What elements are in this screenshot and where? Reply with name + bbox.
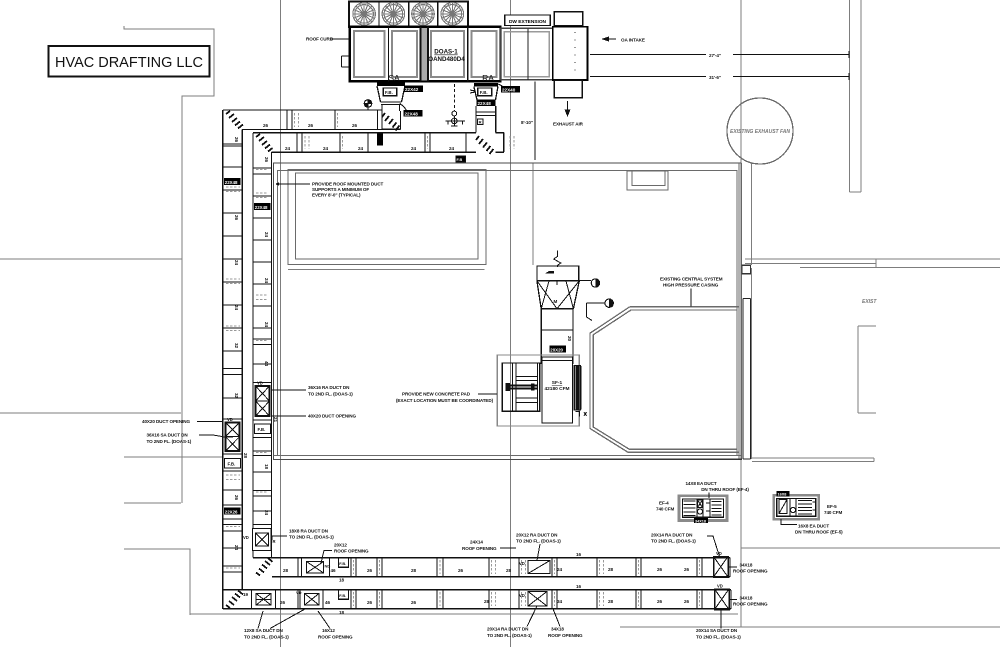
svg-text:DN THRU ROOF (EF-5): DN THRU ROOF (EF-5) bbox=[795, 530, 843, 535]
svg-text:SUPPORTS A MINIMUM OF: SUPPORTS A MINIMUM OF bbox=[312, 187, 369, 192]
svg-text:40X20 DUCT OPENING: 40X20 DUCT OPENING bbox=[142, 419, 191, 424]
svg-text:EF-5: EF-5 bbox=[827, 504, 837, 509]
svg-text:26: 26 bbox=[458, 568, 464, 573]
svg-text:F.B.: F.B. bbox=[385, 90, 393, 95]
svg-text:26: 26 bbox=[684, 567, 690, 572]
svg-text:34: 34 bbox=[557, 599, 563, 604]
svg-text:EXIST: EXIST bbox=[862, 299, 877, 305]
svg-text:16: 16 bbox=[576, 584, 582, 589]
svg-text:26: 26 bbox=[657, 567, 663, 572]
svg-text:F.B: F.B bbox=[457, 158, 463, 162]
svg-text:26: 26 bbox=[684, 599, 690, 604]
svg-text:ROOF OPENING: ROOF OPENING bbox=[334, 549, 369, 554]
svg-text:22X26: 22X26 bbox=[225, 509, 238, 514]
svg-text:40X20 DUCT OPENING: 40X20 DUCT OPENING bbox=[308, 414, 357, 419]
svg-text:EXHAUST AIR: EXHAUST AIR bbox=[553, 122, 584, 127]
svg-text:36X16 RA DUCT DN: 36X16 RA DUCT DN bbox=[308, 385, 350, 390]
svg-text:F.B.: F.B. bbox=[480, 90, 488, 95]
svg-text:ND: ND bbox=[325, 564, 331, 569]
svg-text:ROOF OPENING: ROOF OPENING bbox=[733, 569, 768, 574]
svg-text:26: 26 bbox=[234, 137, 239, 143]
svg-text:DN THRU ROOF (EF-4): DN THRU ROOF (EF-4) bbox=[701, 487, 749, 492]
svg-text:OA INTAKE: OA INTAKE bbox=[621, 37, 645, 42]
svg-text:24X14: 24X14 bbox=[470, 540, 483, 545]
svg-text:32: 32 bbox=[234, 343, 239, 349]
svg-text:VD: VD bbox=[717, 584, 723, 589]
svg-text:26: 26 bbox=[308, 123, 314, 128]
svg-text:VD: VD bbox=[257, 381, 263, 386]
svg-text:R: R bbox=[273, 539, 276, 544]
svg-text:24: 24 bbox=[264, 322, 269, 328]
svg-text:46: 46 bbox=[325, 600, 331, 605]
svg-text:26: 26 bbox=[352, 123, 358, 128]
svg-text:16X12: 16X12 bbox=[322, 628, 335, 633]
svg-text:740 CFM: 740 CFM bbox=[656, 507, 674, 512]
svg-text:F.B.: F.B. bbox=[339, 593, 346, 598]
svg-text:16X8 EA DUCT: 16X8 EA DUCT bbox=[798, 524, 829, 529]
svg-text:34X18: 34X18 bbox=[740, 596, 753, 601]
svg-text:SA: SA bbox=[388, 73, 400, 83]
svg-text:EF-4: EF-4 bbox=[659, 501, 669, 506]
svg-text:TO 2ND FL. (DOAS-1): TO 2ND FL. (DOAS-1) bbox=[147, 439, 192, 444]
svg-text:28: 28 bbox=[283, 568, 289, 573]
svg-text:F.B.: F.B. bbox=[258, 427, 266, 432]
svg-text:20X14 RA DUCT DN: 20X14 RA DUCT DN bbox=[487, 627, 529, 632]
svg-text:TO 2ND FL. (DOAS-1): TO 2ND FL. (DOAS-1) bbox=[487, 633, 532, 638]
svg-text:DOAS-1: DOAS-1 bbox=[434, 49, 458, 56]
svg-text:26: 26 bbox=[263, 123, 269, 128]
svg-text:DW EXTENSION: DW EXTENSION bbox=[509, 19, 547, 25]
svg-text:44: 44 bbox=[264, 361, 269, 367]
svg-text:27'-4": 27'-4" bbox=[709, 53, 721, 58]
svg-text:42180 CFM: 42180 CFM bbox=[544, 386, 569, 392]
svg-text:VD: VD bbox=[519, 561, 525, 566]
svg-text:24: 24 bbox=[234, 305, 239, 311]
svg-text:TO 2ND FL. (DOAS-1): TO 2ND FL. (DOAS-1) bbox=[651, 539, 696, 544]
svg-text:20X14 RA DUCT DN: 20X14 RA DUCT DN bbox=[651, 533, 693, 538]
svg-text:VD: VD bbox=[296, 590, 302, 595]
svg-text:36X16 SA DUCT DN: 36X16 SA DUCT DN bbox=[147, 433, 189, 438]
svg-text:24: 24 bbox=[358, 146, 364, 151]
svg-text:SF-1: SF-1 bbox=[552, 380, 563, 386]
svg-text:26: 26 bbox=[264, 157, 269, 163]
svg-text:28: 28 bbox=[484, 599, 490, 604]
svg-text:28: 28 bbox=[608, 599, 614, 604]
svg-text:VD: VD bbox=[243, 535, 249, 540]
svg-text:R: R bbox=[479, 120, 482, 125]
svg-text:16X8: 16X8 bbox=[778, 493, 787, 497]
svg-text:26: 26 bbox=[367, 568, 373, 573]
svg-text:24: 24 bbox=[234, 260, 239, 266]
svg-text:16: 16 bbox=[576, 552, 582, 557]
svg-text:ROOF OPENING: ROOF OPENING bbox=[462, 546, 497, 551]
svg-text:OAND480D4: OAND480D4 bbox=[428, 56, 465, 63]
svg-text:20X12 RA DUCT DN: 20X12 RA DUCT DN bbox=[516, 533, 558, 538]
svg-text:HIGH PRESSURE CASING: HIGH PRESSURE CASING bbox=[663, 283, 719, 288]
svg-text:22X48: 22X48 bbox=[225, 180, 238, 185]
svg-text:24: 24 bbox=[557, 567, 563, 572]
svg-text:28: 28 bbox=[608, 567, 614, 572]
svg-text:46: 46 bbox=[331, 568, 337, 573]
svg-text:TO 2ND FL. (DOAS-1): TO 2ND FL. (DOAS-1) bbox=[244, 634, 289, 639]
svg-text:26: 26 bbox=[280, 600, 286, 605]
svg-text:EXISTING EXHAUST FAN: EXISTING EXHAUST FAN bbox=[730, 129, 790, 135]
svg-text:TO 2ND FL. (DOAS-1): TO 2ND FL. (DOAS-1) bbox=[516, 539, 561, 544]
svg-text:24: 24 bbox=[234, 545, 239, 551]
svg-text:22X42: 22X42 bbox=[405, 87, 419, 92]
svg-text:24: 24 bbox=[264, 232, 269, 238]
svg-text:26: 26 bbox=[367, 600, 373, 605]
svg-text:24: 24 bbox=[264, 510, 269, 516]
svg-text:22X48: 22X48 bbox=[255, 205, 268, 210]
svg-text:21: 21 bbox=[273, 417, 278, 423]
svg-text:EXISTING CENTRAL SYSTEM: EXISTING CENTRAL SYSTEM bbox=[660, 277, 723, 282]
svg-text:(EXACT LOCATION MUST BE COORDI: (EXACT LOCATION MUST BE COORDINATED) bbox=[396, 398, 494, 403]
svg-text:RA: RA bbox=[482, 73, 494, 83]
svg-text:8'-10": 8'-10" bbox=[521, 120, 533, 125]
svg-text:14X8 EA DUCT: 14X8 EA DUCT bbox=[685, 481, 716, 486]
svg-text:18: 18 bbox=[339, 578, 345, 583]
svg-text:ROOF OPENING: ROOF OPENING bbox=[548, 633, 583, 638]
svg-text:24: 24 bbox=[285, 146, 291, 151]
svg-text:31'-6": 31'-6" bbox=[709, 75, 721, 80]
svg-text:34X18: 34X18 bbox=[695, 519, 706, 523]
svg-text:M: M bbox=[554, 299, 558, 304]
svg-text:EVERY 8'-0" (TYPICAL): EVERY 8'-0" (TYPICAL) bbox=[312, 193, 361, 198]
svg-text:26: 26 bbox=[657, 599, 663, 604]
svg-text:F.B.: F.B. bbox=[228, 462, 236, 467]
svg-text:PROVIDE ROOF MOUNTED DUCT: PROVIDE ROOF MOUNTED DUCT bbox=[312, 182, 384, 187]
svg-text:28: 28 bbox=[506, 568, 512, 573]
svg-text:26: 26 bbox=[234, 495, 239, 501]
svg-text:26: 26 bbox=[411, 600, 417, 605]
svg-text:PROVIDE NEW CONCRETE PAD: PROVIDE NEW CONCRETE PAD bbox=[402, 392, 471, 397]
svg-text:22X40: 22X40 bbox=[502, 87, 516, 92]
svg-text:20: 20 bbox=[567, 336, 572, 342]
svg-text:24: 24 bbox=[323, 146, 329, 151]
svg-text:TO 2ND FL. (DOAS-1): TO 2ND FL. (DOAS-1) bbox=[696, 634, 741, 639]
svg-text:18: 18 bbox=[339, 610, 345, 615]
svg-text:F.B.: F.B. bbox=[339, 561, 346, 566]
svg-text:ROOF OPENING: ROOF OPENING bbox=[733, 602, 768, 607]
svg-text:18X8 RA DUCT DN: 18X8 RA DUCT DN bbox=[289, 529, 329, 534]
svg-text:34X18: 34X18 bbox=[551, 627, 564, 632]
svg-text:ROOF OPENING: ROOF OPENING bbox=[318, 634, 353, 639]
svg-text:22X48: 22X48 bbox=[478, 101, 492, 106]
svg-text:20X14 SA DUCT DN: 20X14 SA DUCT DN bbox=[696, 628, 738, 633]
svg-text:HVAC DRAFTING LLC: HVAC DRAFTING LLC bbox=[55, 55, 203, 71]
svg-text:TO 2ND FL. (DOAS-1): TO 2ND FL. (DOAS-1) bbox=[308, 392, 353, 397]
svg-text:24: 24 bbox=[264, 278, 269, 284]
svg-text:740 CFM: 740 CFM bbox=[824, 510, 842, 515]
svg-text:ROOF CURB: ROOF CURB bbox=[306, 37, 334, 42]
svg-text:26: 26 bbox=[234, 215, 239, 221]
svg-text:VD: VD bbox=[227, 417, 233, 422]
svg-text:VD: VD bbox=[519, 593, 525, 598]
svg-text:32: 32 bbox=[234, 393, 239, 399]
svg-text:20X12: 20X12 bbox=[334, 543, 347, 548]
svg-text:24: 24 bbox=[411, 146, 417, 151]
svg-text:28: 28 bbox=[243, 453, 248, 459]
svg-text:18: 18 bbox=[264, 464, 269, 470]
svg-text:20X20: 20X20 bbox=[550, 347, 563, 352]
svg-text:19: 19 bbox=[243, 592, 249, 597]
svg-text:22X48: 22X48 bbox=[405, 111, 419, 116]
svg-text:34X18: 34X18 bbox=[740, 563, 753, 568]
svg-text:12X8 SA DUCT DN: 12X8 SA DUCT DN bbox=[244, 628, 283, 633]
svg-text:24: 24 bbox=[449, 146, 455, 151]
svg-text:28: 28 bbox=[411, 568, 417, 573]
svg-text:TO 2ND FL. (DOAS-1): TO 2ND FL. (DOAS-1) bbox=[289, 535, 334, 540]
